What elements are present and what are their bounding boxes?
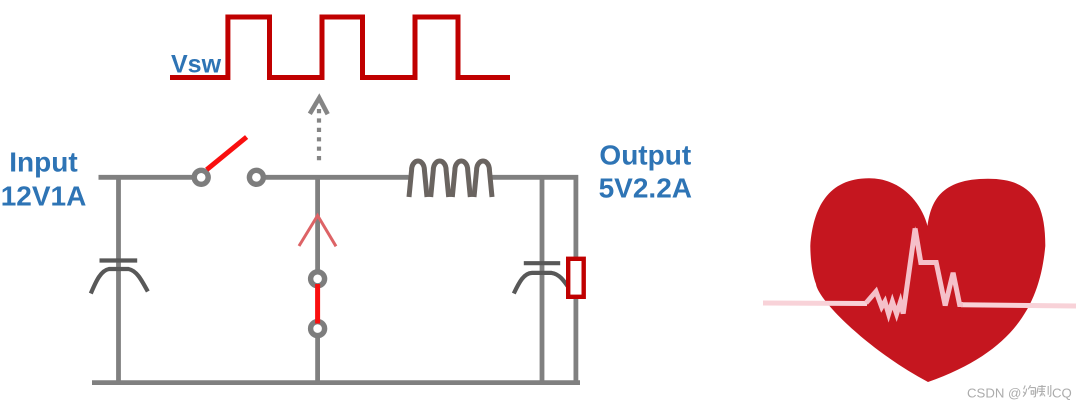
inductor L — [409, 161, 492, 197]
svg-text:Vsw: Vsw — [171, 51, 222, 79]
svg-text:5V2.2A: 5V2.2A — [599, 173, 692, 204]
ECG baseline left — [763, 301, 867, 307]
wire bottom rail — [92, 380, 580, 385]
svg-text:CSDN @: CSDN @ — [967, 385, 1021, 400]
current caret (light red) — [299, 216, 336, 247]
svg-text:Output: Output — [599, 140, 691, 171]
wire mid vertical upper — [315, 177, 320, 272]
wire mid vertical lower — [315, 335, 320, 383]
wire output cap vertical — [540, 177, 545, 382]
load resistor (red rect) — [568, 259, 584, 297]
low-side switch closed segment (red) — [315, 284, 320, 324]
switch contact node right — [249, 170, 263, 184]
dotted arrow to Vsw — [310, 98, 328, 114]
heart — [810, 178, 1045, 382]
wire switch to corner with down turn — [262, 177, 576, 382]
capacitor Cin top plate — [100, 258, 138, 262]
svg-text:Input: Input — [9, 147, 77, 178]
waveform Vsw square wave — [170, 17, 510, 78]
wire top-left horizontal — [99, 175, 197, 180]
capacitor Cout curved plate — [514, 273, 571, 294]
low-side switch node upper — [311, 272, 325, 286]
switch lever (open, red) — [207, 137, 247, 170]
svg-text:12V1A: 12V1A — [1, 180, 87, 211]
ECG trace — [866, 229, 963, 315]
ECG baseline right — [961, 305, 1076, 306]
ECG spike tip — [912, 226, 918, 240]
switch contact node left — [194, 170, 208, 184]
wire left vertical — [116, 177, 121, 382]
capacitor Cout top plate — [524, 261, 560, 265]
inductor wire mask — [409, 172, 493, 183]
svg-text:CQ: CQ — [1052, 385, 1072, 400]
low-side switch node lower — [311, 322, 325, 336]
capacitor Cin curved plate — [91, 269, 148, 294]
